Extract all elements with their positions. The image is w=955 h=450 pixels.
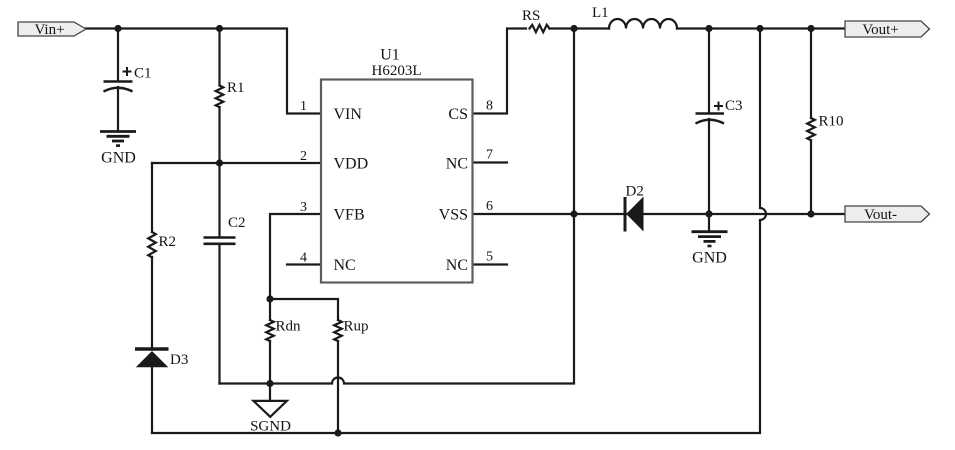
wire C2 bottom lead down to feedback line: [218, 245, 220, 384]
svg-text:VIN: VIN: [334, 106, 363, 123]
svg-text:H6203L: H6203L: [372, 63, 422, 79]
svg-text:D2: D2: [626, 184, 644, 200]
svg-text:5: 5: [486, 250, 493, 265]
svg-text:Rdn: Rdn: [276, 319, 302, 335]
wire R10 top lead: [810, 29, 812, 119]
svg-text:GND: GND: [692, 250, 727, 267]
junction node Rdn / SGND: [266, 380, 273, 387]
junction node VSS line / R10: [807, 210, 814, 217]
wire R1 top lead: [218, 29, 220, 86]
terminal Vout+: [845, 21, 930, 38]
svg-text:6: 6: [486, 199, 493, 214]
wire pin7 NC stub: [473, 161, 508, 163]
ground symbol GND (output): [692, 232, 728, 246]
wire Vout+ rail down to bottom rail with hop over VSS line: [152, 29, 766, 434]
wire VDD pin2 line: [152, 162, 321, 164]
svg-text:NC: NC: [446, 156, 468, 173]
svg-text:3: 3: [300, 200, 307, 215]
junction node top rail / bottom-rail drop: [756, 25, 763, 32]
wire R2 top lead: [151, 163, 153, 232]
svg-text:GND: GND: [101, 150, 136, 167]
svg-text:Vout+: Vout+: [862, 22, 899, 38]
junction node top rail / C1: [114, 25, 121, 32]
svg-text:8: 8: [486, 99, 493, 114]
wire Rup bottom lead to bottom rail: [337, 341, 339, 433]
svg-text:2: 2: [300, 149, 307, 164]
wire L1 to Vout+ terminal: [677, 27, 845, 29]
resistor R10: [807, 118, 815, 140]
svg-text:Vout-: Vout-: [864, 207, 897, 223]
wire C3 bottom lead: [708, 119, 710, 214]
terminal Vout-: [845, 206, 930, 223]
wire GND drop below output line: [708, 214, 710, 231]
svg-text:RS: RS: [522, 8, 540, 24]
ground symbol SGND (open triangle): [254, 401, 287, 417]
resistor R1: [216, 86, 224, 108]
resistor R2: [148, 232, 156, 257]
svg-text:4: 4: [300, 251, 307, 266]
capacitor C1 (polarized): [104, 67, 133, 92]
capacitor C3 (polarized): [696, 102, 725, 124]
resistor RS: [530, 25, 550, 32]
wire pin5 NC stub: [473, 263, 508, 265]
svg-text:C3: C3: [725, 98, 743, 114]
svg-text:VSS: VSS: [439, 207, 468, 224]
wire R10 bottom lead: [810, 140, 812, 214]
wire pin4 NC stub: [287, 263, 321, 265]
wire switch node drop: [573, 29, 575, 384]
wire C1 drop from top rail: [117, 29, 119, 82]
IC U1 body: [321, 80, 473, 283]
svg-text:7: 7: [486, 148, 493, 163]
wire top rail from Vin+ to pin1 drop: [84, 29, 321, 114]
diode D3: [135, 349, 169, 367]
diode D2: [625, 197, 644, 232]
wire divider node to Rup top: [270, 299, 338, 320]
svg-text:L1: L1: [592, 5, 609, 21]
svg-text:D3: D3: [170, 352, 188, 368]
resistor Rup: [334, 320, 342, 341]
resistor Rdn: [266, 320, 274, 341]
junction node RS / L1 / switch drop: [570, 25, 577, 32]
svg-text:NC: NC: [334, 257, 356, 274]
wire C2 top lead: [218, 163, 220, 236]
junction node VDD line / R1 / C2: [216, 159, 223, 166]
wire R1 bottom lead to VDD line: [218, 107, 220, 163]
junction node Rup / bottom rail: [334, 429, 341, 436]
junction node top rail / R10: [807, 25, 814, 32]
wire D3 bottom to bottom rail: [151, 367, 153, 433]
terminal Vin+: [18, 22, 86, 38]
svg-text:U1: U1: [380, 47, 400, 64]
junction node VSS line / C3 / GND: [705, 210, 712, 217]
wire R2 bottom to D3: [151, 257, 153, 349]
svg-text:R10: R10: [819, 114, 844, 130]
wire pin8 CS to RS: [473, 29, 527, 114]
wire RS to L1: [550, 27, 610, 29]
ground symbol GND (C1): [100, 132, 136, 146]
wire pin6 VSS line to Vout- terminal: [473, 213, 846, 215]
svg-text:R2: R2: [159, 234, 177, 250]
svg-text:Rup: Rup: [344, 319, 369, 335]
wire SGND drop: [269, 384, 271, 401]
svg-text:1: 1: [300, 99, 307, 114]
junction node top rail / R1: [216, 25, 223, 32]
junction node VSS line / switch drop: [570, 210, 577, 217]
wire feedback line with hop over Rup: [220, 378, 575, 384]
inductor L1: [609, 19, 677, 29]
svg-text:R1: R1: [227, 80, 245, 96]
wire C1 bottom to GND: [117, 87, 119, 131]
svg-text:CS: CS: [448, 106, 468, 123]
wire C3 top lead: [708, 29, 710, 114]
svg-text:Vin+: Vin+: [34, 22, 64, 38]
wire pin3 VFB stub and drop to divider node: [270, 214, 321, 299]
svg-text:SGND: SGND: [250, 419, 291, 435]
wire Rdn bottom lead: [269, 341, 271, 384]
svg-text:C1: C1: [134, 66, 152, 82]
junction node top rail / C3: [705, 25, 712, 32]
svg-text:NC: NC: [446, 257, 468, 274]
junction node VFB divider: [266, 295, 273, 302]
capacitor C2: [204, 238, 236, 244]
svg-text:C2: C2: [228, 215, 246, 231]
svg-text:VFB: VFB: [334, 207, 365, 224]
wire Rdn top lead: [269, 299, 271, 320]
svg-text:VDD: VDD: [334, 156, 369, 173]
